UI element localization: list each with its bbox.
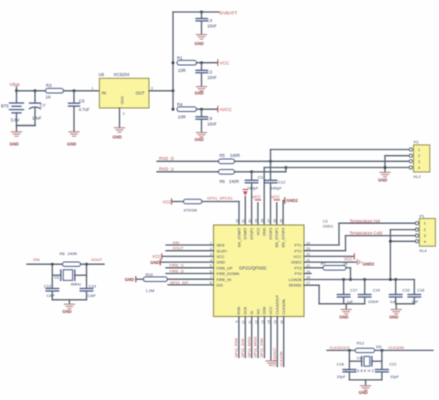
U1 right pin name labels [289, 244, 302, 288]
ground (U6) [113, 127, 126, 139]
svg-text:GND2: GND2 [291, 261, 302, 265]
svg-text:BT5: BT5 [1, 104, 9, 109]
connector P2 [409, 140, 430, 180]
svg-text:R10: R10 [146, 272, 154, 277]
node junction right [85, 263, 88, 266]
svg-text:10nF: 10nF [207, 122, 217, 127]
svg-text:GND: GND [195, 91, 204, 96]
wire R10 to pin7 [167, 278, 213, 280]
svg-text:GP21_MISO: GP21_MISO [247, 336, 251, 357]
resistor R12 1M [355, 341, 381, 353]
svg-text:C3: C3 [323, 220, 328, 224]
svg-text:C14: C14 [89, 284, 97, 289]
svg-text:1M: 1M [376, 344, 382, 349]
ground (C6) [67, 131, 80, 146]
svg-text:240R: 240R [230, 153, 240, 158]
wire bottom rail A [344, 304, 365, 309]
svg-text:27: 27 [267, 219, 271, 223]
svg-text:STOP1: STOP1 [250, 228, 254, 240]
svg-text:KL4: KL4 [420, 248, 428, 253]
svg-text:25: 25 [280, 219, 284, 223]
svg-text:PT2: PT2 [295, 249, 302, 253]
svg-text:C13: C13 [44, 284, 52, 289]
svg-text:28: 28 [261, 219, 265, 223]
svg-text:SSN: SSN [263, 306, 267, 314]
battery BT5 3.6V [1, 91, 24, 126]
wire battery/C7 bottom join [17, 125, 36, 127]
svg-text:240pF: 240pF [271, 186, 283, 191]
svg-text:FIRE_IN: FIRE_IN [217, 278, 232, 282]
wire pin15 [276, 317, 278, 367]
svg-text:Y3: Y3 [356, 355, 362, 360]
wire crystal top [27, 263, 63, 265]
wire pin24 temperature A [304, 223, 416, 245]
wire pin23 temperature B [304, 236, 416, 251]
svg-text:FIRE_UP: FIRE_UP [217, 266, 234, 270]
svg-text:GND: GND [389, 314, 398, 319]
capacitor C4 10nF [196, 12, 217, 34]
svg-text:VCC: VCC [256, 227, 260, 235]
svg-text:R6: R6 [220, 179, 226, 184]
svg-text:1K: 1K [46, 94, 51, 99]
wire pin14 to ground [270, 317, 272, 361]
ground (rail A) [339, 309, 352, 320]
svg-text:C18: C18 [337, 362, 344, 367]
resistor R8 240R [60, 251, 81, 266]
svg-text:VCC: VCC [344, 257, 353, 262]
wire pin5 FIRE_U [166, 267, 214, 269]
capacitor C9 10nF [196, 109, 217, 132]
svg-text:Temperature Cold: Temperature Cold [350, 231, 383, 236]
ground (pin14) [265, 360, 276, 365]
resistor R3 1K [46, 83, 64, 100]
svg-text:240R: 240R [68, 251, 78, 256]
svg-text:SLVFI: SLVFI [217, 249, 227, 253]
svg-text:EN_START: EN_START [237, 227, 241, 247]
wire RXD_D [157, 160, 219, 162]
node VBAT port [10, 82, 21, 92]
svg-text:2: 2 [418, 154, 420, 158]
wire pin22 VCC port [304, 254, 354, 262]
node VCC port (R2) [163, 199, 184, 205]
svg-text:2: 2 [424, 228, 426, 232]
wire pin31 with signal-gnd arrow [243, 189, 248, 225]
svg-text:VCC: VCC [220, 61, 230, 66]
wire R3 to U6 IN [64, 90, 100, 92]
svg-text:XOUT: XOUT [173, 246, 185, 251]
svg-text:GP21_SPCS1: GP21_SPCS1 [207, 196, 233, 201]
wire RXD_U to corner [235, 171, 286, 173]
svg-text:GP21_MOSI: GP21_MOSI [254, 337, 258, 358]
svg-text:VCC: VCC [163, 199, 172, 204]
svg-text:IN: IN [102, 91, 106, 96]
svg-text:EN_STOP1: EN_STOP1 [275, 228, 279, 248]
wire U6 OUT to rail [149, 90, 173, 92]
svg-text:FIRE_DOWN: FIRE_DOWN [217, 272, 240, 276]
svg-text:VCC: VCC [269, 306, 273, 314]
svg-text:GND: GND [263, 227, 267, 236]
svg-text:R12: R12 [357, 341, 365, 346]
svg-text:26: 26 [273, 219, 277, 223]
svg-text:32: 32 [235, 219, 239, 223]
wire pin20 to R7 [304, 267, 323, 269]
svg-text:CLK32IN: CLK32IN [282, 299, 286, 315]
svg-text:1: 1 [418, 148, 420, 152]
capacitor C14 CAP [80, 284, 97, 300]
node VCC port pin3 [152, 254, 213, 259]
capacitor C6 4.7uF [69, 91, 90, 132]
svg-text:C6: C6 [79, 98, 85, 103]
wire R1 to VCC [197, 62, 218, 64]
svg-text:C16: C16 [417, 288, 424, 293]
svg-text:R8: R8 [60, 251, 66, 256]
capacitor C16 [408, 280, 424, 305]
svg-text:3: 3 [151, 87, 153, 91]
connector P1 [415, 213, 435, 253]
svg-text:1: 1 [424, 222, 426, 226]
svg-text:1: 1 [92, 87, 94, 91]
ground (C2) [195, 86, 208, 96]
capacitor C17 [337, 278, 357, 304]
svg-text:3.6V: 3.6V [11, 118, 20, 123]
ground (C9) [195, 132, 208, 142]
svg-text:GND: GND [378, 177, 387, 182]
resistor R10 1.2M [143, 272, 167, 293]
wire pin8 GP21_INT [168, 284, 214, 286]
wire pin9 [238, 317, 240, 358]
svg-text:CLK32OUT: CLK32OUT [330, 345, 351, 350]
svg-text:1.2M: 1.2M [146, 288, 155, 293]
svg-text:RXD_D: RXD_D [159, 156, 174, 161]
ground (rail B) [389, 309, 402, 320]
wire VBat to R3 [17, 90, 46, 92]
wire pin17 sense [304, 285, 344, 304]
wire crystal bottom rail [349, 380, 382, 385]
svg-text:GP21_SSN: GP21_SSN [260, 338, 264, 357]
capacitor C12 240pF (series, pin27) [264, 161, 286, 225]
U1 top pin numbers 32-25 [235, 219, 283, 223]
svg-text:240R: 240R [229, 179, 239, 184]
svg-text:4MHz: 4MHz [71, 281, 81, 286]
svg-text:VCC: VCC [271, 195, 280, 200]
svg-text:R4: R4 [177, 102, 183, 107]
svg-text:XOUT: XOUT [91, 257, 103, 262]
svg-text:R1: R1 [177, 55, 183, 60]
op-amp U1 GP21/QFN32 body [214, 225, 305, 317]
svg-text:10uF: 10uF [32, 115, 42, 120]
svg-text:SCK: SCK [244, 306, 248, 314]
svg-text:OUT: OUT [136, 91, 145, 96]
wire top row to P2 pin1 [271, 149, 410, 151]
wire pin29 VCC port [252, 195, 261, 225]
svg-text:CLK32OUT: CLK32OUT [273, 347, 277, 367]
wire R7 to load rail [346, 268, 352, 281]
ground (P2) [378, 172, 391, 183]
wire RXD_D to P2 pin3 [235, 160, 410, 162]
svg-text:C11: C11 [258, 174, 266, 179]
svg-text:3: 3 [418, 160, 420, 164]
wire crystal bottom rail [52, 299, 86, 301]
svg-text:GND: GND [339, 314, 348, 319]
svg-text:STOP2: STOP2 [269, 228, 273, 240]
svg-text:PT4: PT4 [295, 272, 302, 276]
wire pin10 [244, 317, 246, 358]
node AVCC port [218, 106, 233, 112]
node VCC port [218, 60, 230, 66]
wire P2 pin2 gnd tie [384, 156, 410, 172]
resistor R6 240R [219, 170, 240, 184]
svg-text:RSN: RSN [237, 306, 241, 314]
capacitor C15 [389, 278, 409, 304]
U1 left pin name labels [217, 244, 240, 288]
svg-text:DVBATT: DVBATT [220, 10, 238, 15]
U1 left pin numbers 1-8 [210, 241, 212, 285]
svg-text:FIRE_D: FIRE_D [170, 268, 184, 273]
wire pin6 FIRE_D [166, 273, 214, 275]
crystal Y5 4MHz [52, 264, 86, 288]
svg-text:10pF: 10pF [337, 374, 346, 379]
svg-text:GND: GND [195, 137, 204, 142]
resistor R5 240R [219, 153, 241, 164]
svg-text:SENSE: SENSE [289, 284, 302, 288]
svg-text:CAP: CAP [88, 293, 97, 298]
svg-text:30: 30 [248, 219, 252, 223]
svg-text:10pF: 10pF [390, 374, 399, 379]
svg-text:SO: SO [256, 309, 260, 315]
node junction C6 tap [73, 89, 76, 92]
wire R2 to pin32 [202, 201, 239, 203]
voltage regulator U6 XC6204 [92, 72, 154, 116]
svg-text:GND: GND [67, 142, 76, 147]
capacitor C18 10pF [337, 362, 356, 380]
wire stop2 row to P2 pin4 [264, 167, 409, 169]
wire pin1 XIN [166, 244, 214, 246]
svg-text:C2: C2 [207, 70, 213, 75]
ground (battery) [10, 131, 23, 146]
svg-text:GP21_RSN: GP21_RSN [235, 338, 239, 358]
svg-text:GND1: GND1 [323, 225, 334, 229]
svg-text:3: 3 [424, 234, 426, 238]
U1 bottom pin numbers 9-16 [235, 320, 284, 324]
svg-text:XIN: XIN [33, 257, 40, 262]
svg-text:PT1: PT1 [295, 244, 302, 248]
svg-text:LOADB: LOADB [289, 278, 302, 282]
svg-text:FIRE_U: FIRE_U [170, 263, 184, 268]
wire pin11 [251, 317, 253, 358]
wire R4 to AVCC [197, 108, 218, 110]
wire pin16 [283, 317, 285, 367]
wire corner up [285, 168, 287, 172]
svg-text:CLK32IN: CLK32IN [388, 345, 404, 350]
svg-text:GND: GND [125, 277, 134, 282]
svg-text:XC6204: XC6204 [114, 72, 130, 77]
U1 bottom pin name labels [237, 294, 286, 314]
svg-text:VCC: VCC [252, 195, 261, 200]
wire junction up [270, 150, 272, 162]
ground (crystal) [62, 304, 75, 315]
svg-text:PT3: PT3 [295, 266, 302, 270]
node junction C7 tap [34, 89, 37, 92]
svg-text:470/1M: 470/1M [184, 208, 197, 213]
svg-text:RXD_U: RXD_U [159, 166, 174, 171]
wire pin2 XOUT [166, 250, 214, 252]
svg-text:31: 31 [242, 219, 246, 223]
svg-text:P1: P1 [420, 213, 426, 218]
svg-text:240pF: 240pF [247, 186, 259, 191]
capacitor C7 10uF [30, 91, 46, 126]
node junction RXD_D [269, 160, 272, 163]
wire pin19 stub [304, 273, 311, 275]
svg-text:SI: SI [250, 311, 254, 315]
node C3 / GND1 annotation [323, 220, 334, 229]
svg-text:START: START [244, 227, 248, 240]
svg-text:GND2: GND2 [363, 262, 375, 267]
wire P1 pins 2/4 gnd tie [389, 230, 415, 281]
svg-text:100nF: 100nF [368, 300, 379, 304]
svg-text:P2: P2 [414, 140, 420, 145]
svg-text:C4: C4 [207, 18, 213, 23]
svg-text:GND: GND [120, 96, 124, 105]
wire pin21 GND2 port [304, 259, 375, 266]
wire RXD_U [157, 171, 219, 173]
svg-text:Y5: Y5 [54, 275, 60, 280]
wire pin12 [257, 317, 259, 358]
capacitor C11 240pF (series, pin30) [245, 170, 265, 225]
wire bottom rail B [396, 304, 415, 309]
svg-text:GND2: GND2 [286, 198, 298, 203]
svg-text:C21: C21 [389, 362, 396, 367]
U1 top pin name labels [237, 227, 285, 247]
svg-text:VBat: VBat [10, 82, 21, 87]
resistor R4 10R [172, 102, 197, 120]
svg-text:GND: GND [113, 134, 122, 139]
resistor R1 10R [172, 55, 197, 73]
svg-text:SEN: SEN [217, 244, 225, 248]
wire pin18 load rail [304, 279, 414, 281]
svg-text:GND: GND [150, 260, 159, 265]
wire vertical rail [172, 12, 174, 109]
svg-text:VCC: VCC [217, 255, 225, 259]
resistor R7 1K [321, 262, 349, 270]
svg-text:GND: GND [10, 142, 19, 147]
svg-text:GP21/QFN32: GP21/QFN32 [239, 265, 267, 270]
svg-text:R7: R7 [321, 262, 326, 266]
svg-text:29: 29 [254, 219, 258, 223]
crystal Y3 32.768KHZ [345, 350, 382, 373]
svg-text:CLK32OUT: CLK32OUT [276, 294, 280, 314]
svg-text:GND: GND [62, 309, 71, 314]
svg-text:GND: GND [195, 41, 204, 46]
capacitor C21 10pF [376, 362, 400, 380]
svg-text:10R: 10R [178, 68, 186, 73]
svg-text:GND: GND [217, 261, 226, 265]
svg-text:10nF: 10nF [207, 23, 217, 28]
svg-text:GP21_SCK: GP21_SCK [241, 338, 245, 358]
svg-text:GP21_INT: GP21_INT [170, 280, 189, 285]
svg-text:2: 2 [123, 112, 125, 116]
svg-text:R3: R3 [46, 83, 52, 88]
node GND port pin7 [125, 277, 144, 283]
svg-text:1K: 1K [343, 262, 348, 266]
svg-text:EN_STOP2: EN_STOP2 [282, 228, 286, 248]
svg-text:C15: C15 [402, 288, 409, 293]
svg-text:CLK32IN: CLK32IN [279, 351, 283, 366]
wire pin25 GND2 port [283, 198, 298, 225]
resistor R2 470K/1M [184, 199, 202, 212]
svg-text:VCC: VCC [293, 255, 301, 259]
wire top rail to DVBATT [173, 11, 219, 13]
node GND port pin4 [150, 260, 213, 265]
svg-text:U6: U6 [99, 72, 105, 77]
ground (32k crystal) [359, 385, 372, 395]
svg-text:CAP: CAP [47, 293, 56, 298]
wire pin13 [264, 317, 266, 358]
svg-text:10R: 10R [178, 114, 186, 119]
svg-text:VCC: VCC [152, 254, 161, 259]
wire crystal top [327, 349, 433, 352]
svg-text:C7: C7 [40, 103, 46, 108]
svg-text:4: 4 [424, 240, 426, 244]
wire pin26 VCC port [271, 195, 280, 225]
svg-text:4: 4 [418, 166, 420, 170]
svg-text:C12: C12 [278, 180, 286, 185]
svg-text:DIS: DIS [217, 284, 224, 288]
svg-text:KL2: KL2 [414, 174, 422, 179]
ground (C4) [195, 34, 208, 46]
svg-text:GND: GND [359, 390, 368, 395]
capacitor C13 CAP [44, 284, 59, 300]
svg-text:XIN: XIN [173, 240, 180, 245]
node junction left [51, 263, 54, 266]
svg-text:C9: C9 [207, 116, 213, 121]
wire pin28 up [263, 168, 265, 226]
U1 right pin numbers 24-17 [306, 241, 310, 285]
svg-text:C19: C19 [373, 288, 380, 293]
svg-text:AVCC: AVCC [220, 107, 233, 112]
wire U6 GND pin [119, 108, 121, 127]
svg-text:10nF: 10nF [207, 75, 217, 80]
svg-text:R5: R5 [220, 153, 226, 158]
svg-text:4.7uF: 4.7uF [79, 107, 90, 112]
capacitor C2 10nF [196, 63, 217, 86]
svg-text:Temperature Hot: Temperature Hot [350, 218, 381, 223]
svg-text:C17: C17 [350, 288, 357, 293]
capacitor C19 [358, 278, 380, 304]
